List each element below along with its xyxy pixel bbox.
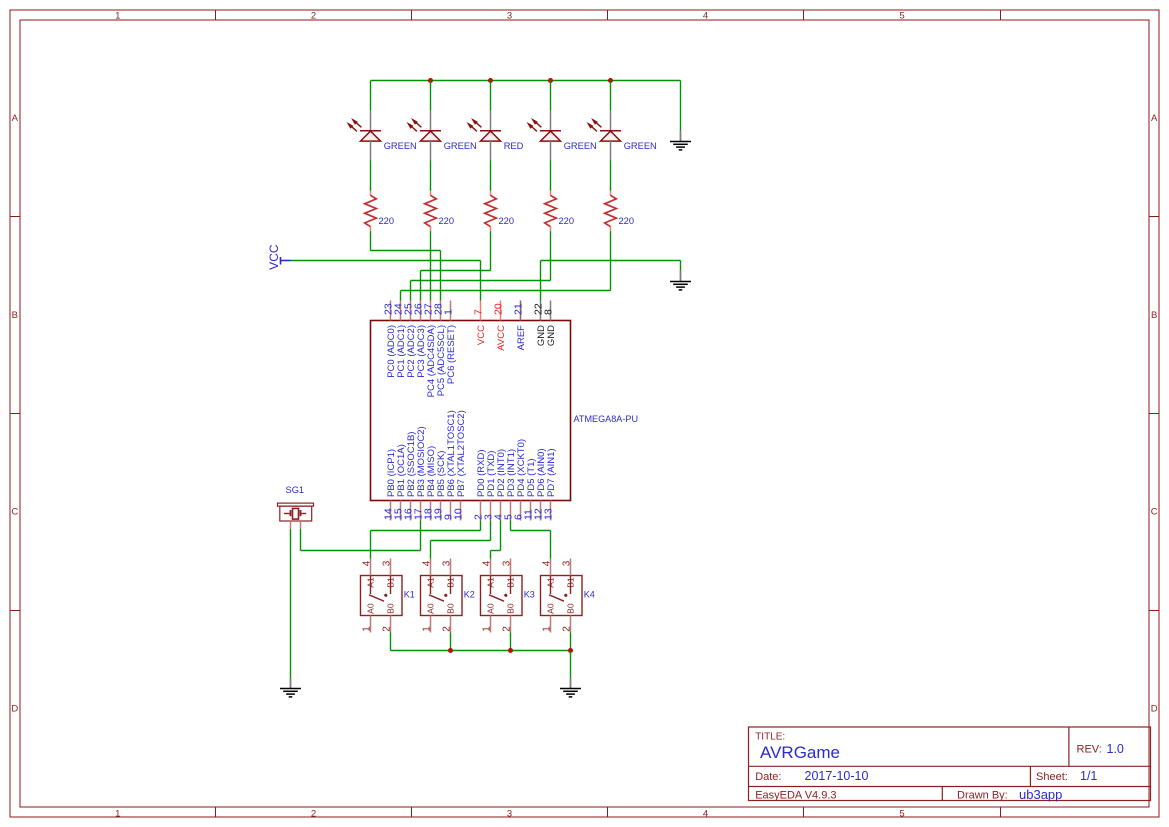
ground (right, pin22) [670,271,691,290]
svg-text:K2: K2 [464,589,475,599]
svg-text:REV:: REV: [1077,744,1102,756]
resistor R4 220 [545,161,574,232]
IC U1 bottom pin 14 PB0 (ICP1) [383,449,397,521]
svg-text:4: 4 [703,808,708,819]
wire PD3 pin5 to K4 [511,521,551,559]
svg-text:1: 1 [542,626,553,632]
svg-text:2: 2 [311,10,316,21]
svg-text:GREEN: GREEN [564,141,597,151]
wire net LED anode rail [371,80,681,82]
IC U1 bottom pin 12 PD6 (AIN0) [533,448,547,520]
title block Sheet label [1036,771,1068,783]
wire R1 to PC5 pin28 [371,231,441,300]
LED LED4 (GREEN) [527,81,596,161]
IC U1 top pin 21 AREF [513,301,527,351]
svg-text:4: 4 [422,560,433,566]
IC U1 ATMEGA8A-PU body [371,321,571,501]
resistor R5 220 [605,161,634,232]
svg-text:A0: A0 [426,603,436,614]
svg-text:Drawn By:: Drawn By: [957,790,1008,802]
IC U1 top pin 7 VCC [473,301,487,346]
svg-text:A0: A0 [486,603,496,614]
title block title AVRGame [760,743,840,762]
IC U1 bottom pin 17 PB3 (MOSIOC2) [413,426,427,520]
junction on rail x=610 [608,78,613,83]
svg-text:5: 5 [899,808,904,819]
IC U1 bottom pin 15 PB1 (OC1A) [393,444,407,520]
svg-text:D: D [1151,704,1158,715]
svg-text:2017-10-10: 2017-10-10 [805,769,869,783]
svg-text:A0: A0 [546,603,556,614]
wire R3 to PC3 pin26 [421,231,491,300]
svg-text:8: 8 [543,309,555,315]
svg-text:ub3app: ub3app [1019,787,1062,802]
svg-text:GND: GND [546,325,557,346]
svg-text:TITLE:: TITLE: [755,732,785,743]
svg-text:1: 1 [362,626,373,632]
IC U1 bottom pin 18 PB4 (MISO) [423,446,437,521]
svg-text:3: 3 [507,808,512,819]
buzzer SG1 [278,485,314,529]
svg-text:A: A [12,113,19,124]
ground (bottom right, buttons) [560,678,581,697]
wire pin22 GND to ground [541,261,681,301]
title block date value [805,769,869,783]
junction on rail x=550 [548,78,553,83]
title block box [749,727,1151,801]
svg-text:K3: K3 [524,589,535,599]
IC U1 bottom pin 13 PD7 (AIN1) [543,448,557,520]
LED LED3 (RED) [467,81,523,161]
wire K1 pin2 down [390,633,392,651]
title block TITLE label [755,732,785,743]
IC U1 bottom pin 19 PB5 (SCK) [433,451,447,521]
svg-text:GREEN: GREEN [384,141,417,151]
IC U1 top pin 25 PC2 (ADC2) [403,301,417,378]
wire R5 to PC1 pin24 [401,231,611,300]
junction on button rail x=450 [448,648,453,653]
IC U1 top pin 24 PC1 (ADC1) [393,301,407,378]
svg-text:EasyEDA V4.9.3: EasyEDA V4.9.3 [755,790,836,802]
svg-text:VCC: VCC [267,244,281,270]
wire K3 pin2 down [510,633,512,651]
resistor R2 220 [425,161,454,232]
svg-text:K4: K4 [584,589,595,599]
svg-text:3: 3 [562,560,573,566]
svg-text:4: 4 [703,10,708,21]
svg-text:B: B [1151,310,1157,321]
svg-text:B0: B0 [506,603,516,614]
svg-text:20: 20 [493,303,505,315]
svg-text:B0: B0 [566,603,576,614]
IC U1 bottom pin 11 PD5 (T1) [523,458,537,520]
svg-text:PD7 (AIN1): PD7 (AIN1) [546,448,557,497]
LED LED1 (GREEN) [347,81,416,161]
svg-text:D: D [11,704,18,715]
svg-text:3: 3 [442,560,453,566]
svg-text:3: 3 [507,10,512,21]
svg-text:C: C [11,507,18,518]
wire rail to bottom ground [570,651,572,678]
label ATMEGA8A-PU [574,414,639,424]
wire K4 pin2 down [570,633,572,651]
svg-text:PC6 (RESET): PC6 (RESET) [446,325,457,384]
svg-text:220: 220 [619,216,635,226]
svg-text:VCC: VCC [476,325,487,345]
svg-text:21: 21 [513,303,525,315]
IC U1 top pin 28 PC5 (ADC5SCL) [433,301,447,397]
resistor R3 220 [485,161,514,232]
svg-text:2: 2 [502,626,513,632]
svg-text:A0: A0 [366,603,376,614]
svg-text:RED: RED [504,141,524,151]
svg-text:7: 7 [473,309,485,315]
svg-text:2: 2 [382,626,393,632]
svg-text:13: 13 [543,508,555,520]
IC U1 bottom pin 4 PD2 (INT0) [493,449,507,521]
IC U1 bottom pin 6 PD4 (XCKT0) [513,439,527,521]
svg-text:SG1: SG1 [286,485,305,495]
IC U1 top pin 1 PC6 (RESET) [443,301,457,385]
resistor R1 220 [365,161,394,232]
title block Drawn By label [957,790,1008,802]
svg-text:1: 1 [115,10,120,21]
svg-text:1: 1 [115,808,120,819]
junction on rail x=490 [488,78,493,83]
wire PD2 pin4 to K3 [491,521,501,559]
wire VCC to pin7 [291,261,481,301]
ground (top right, LED rail) [670,131,691,150]
svg-text:2: 2 [311,808,316,819]
svg-text:1: 1 [443,309,455,315]
ground (bottom left, SG1) [280,678,301,697]
IC U1 bottom pin 16 PB2 (SSOC1B) [403,432,417,521]
svg-text:B: B [12,310,18,321]
svg-text:A: A [1151,113,1158,124]
push button K3 [481,559,535,633]
IC U1 top pin 8 GND [543,301,557,347]
LED LED5 (GREEN) [587,81,656,161]
svg-text:3: 3 [502,560,513,566]
svg-text:220: 220 [379,216,395,226]
IC U1 top pin 23 PC0 (ADC0) [383,301,397,378]
junction on button rail x=570 [568,648,573,653]
wire R4 to PC2 pin25 [411,231,551,300]
wire rail to ground [680,81,682,131]
wire SG1 to PB3 pin17 [301,521,421,551]
wire button ground rail [391,650,571,652]
IC U1 bottom pin 9 PB6 (XTAL1TOSC1) [443,410,457,520]
svg-text:Sheet:: Sheet: [1036,771,1068,783]
title block author ub3app [1019,787,1062,802]
svg-text:B0: B0 [386,603,396,614]
svg-text:220: 220 [499,216,515,226]
svg-text:B0: B0 [446,603,456,614]
wire K2 pin2 down [450,633,452,651]
IC U1 bottom pin 10 PB7 (XTAL2TOSC2) [453,410,467,520]
IC U1 bottom pin 3 PD1 (TXD) [483,451,497,521]
svg-text:AVRGame: AVRGame [760,743,840,762]
junction on rail x=430 [428,78,433,83]
svg-text:C: C [1151,507,1158,518]
title block EasyEDA version [755,790,836,802]
LED LED2 (GREEN) [407,81,476,161]
wire PD0 pin2 to K1 [371,521,481,559]
svg-text:2: 2 [442,626,453,632]
svg-text:220: 220 [439,216,455,226]
IC U1 top pin 27 PC4 (ADC4SDA) [423,301,437,398]
svg-text:K1: K1 [404,589,415,599]
svg-text:5: 5 [899,10,904,21]
push button K4 [541,559,595,633]
wire R2 to PC4 pin27 [430,231,432,300]
svg-text:PB7 (XTAL2TOSC2): PB7 (XTAL2TOSC2) [456,410,467,497]
IC U1 top pin 26 PC3 (ADC3) [413,301,427,378]
svg-text:GREEN: GREEN [444,141,477,151]
svg-text:1.0: 1.0 [1107,742,1124,756]
net flag VCC [267,244,290,270]
IC U1 bottom pin 5 PD3 (INT1) [503,449,517,521]
wire PD1 pin3 to K2 [431,521,491,559]
title block Date label [755,771,781,783]
push button K2 [421,559,475,633]
title block sheet value [1080,769,1097,783]
svg-text:AVCC: AVCC [496,325,507,351]
IC U1 top pin 22 GND [533,301,547,347]
svg-text:GREEN: GREEN [624,141,657,151]
junction on button rail x=510 [508,648,513,653]
title block REV label [1077,744,1102,756]
push button K1 [361,559,415,633]
svg-text:4: 4 [362,560,373,566]
IC U1 top pin 20 AVCC [493,301,507,351]
svg-text:1/1: 1/1 [1080,769,1097,783]
svg-text:220: 220 [559,216,575,226]
svg-text:AREF: AREF [516,325,527,351]
svg-text:4: 4 [482,560,493,566]
svg-text:ATMEGA8A-PU: ATMEGA8A-PU [574,414,639,424]
svg-text:2: 2 [562,626,573,632]
wire SG1 to ground [290,529,292,678]
svg-text:1: 1 [482,626,493,632]
svg-text:Date:: Date: [755,771,781,783]
svg-text:4: 4 [542,560,553,566]
title block rev value [1107,742,1124,756]
svg-text:1: 1 [422,626,433,632]
IC U1 bottom pin 2 PD0 (RXD) [473,449,487,520]
svg-text:3: 3 [382,560,393,566]
svg-text:10: 10 [453,508,465,520]
